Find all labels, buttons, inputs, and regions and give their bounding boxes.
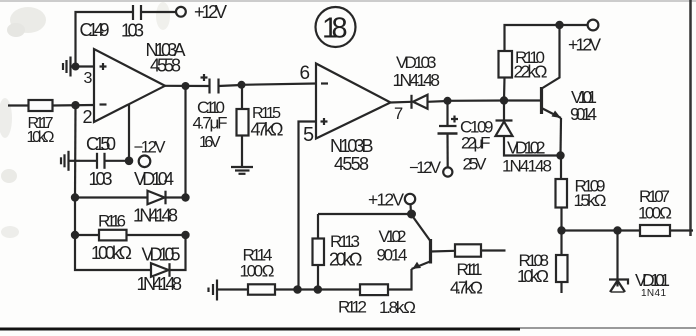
- ground (R115): [231, 167, 253, 174]
- svg-text:20k Ω: 20k Ω: [329, 250, 363, 270]
- transistor V101: [504, 25, 561, 156]
- svg-text:R111: R111: [457, 260, 483, 279]
- resistor R107: [640, 225, 670, 236]
- node -12V pin: [125, 157, 134, 166]
- terminal -12V (C109): [443, 167, 452, 176]
- wire rail1 right: [166, 196, 186, 198]
- wire node to VD101 node: [562, 229, 618, 231]
- wire node C to node D: [448, 99, 505, 102]
- op-amp A negative supply pin wire: [128, 104, 130, 161]
- svg-text:VD105: VD105: [142, 245, 181, 265]
- svg-text:N103B: N103B: [330, 136, 374, 156]
- svg-text:9014: 9014: [570, 104, 597, 124]
- wire opamp B output: [391, 101, 412, 104]
- resistor R110: [499, 51, 513, 78]
- diode VD105: [151, 263, 170, 277]
- wire pin6: [242, 84, 317, 85]
- node G: [407, 210, 416, 219]
- svg-text:1N4148: 1N4148: [502, 157, 552, 176]
- svg-text:9014: 9014: [377, 246, 408, 265]
- svg-text:1N4148: 1N4148: [393, 70, 441, 90]
- wire R113 bottom lead: [317, 265, 319, 290]
- node R109/R108: [557, 226, 565, 234]
- ground (R114): [209, 280, 231, 301]
- node emitter V101: [556, 151, 564, 159]
- svg-text:100k Ω: 100k Ω: [91, 243, 132, 263]
- node C: [444, 97, 452, 105]
- svg-text:4.7μF: 4.7μF: [193, 114, 228, 133]
- wire R110 bottom: [503, 78, 506, 101]
- resistor R112: [360, 284, 388, 295]
- svg-text:10k Ω: 10k Ω: [517, 266, 549, 286]
- wire ground to R114: [230, 288, 248, 290]
- terminal +12V (V102): [405, 194, 415, 204]
- diode VD101: [609, 231, 628, 293]
- wire rail3 right up: [170, 235, 186, 270]
- circled number 18: [316, 7, 356, 47]
- wire rail3 VD105: [75, 235, 151, 270]
- node rail1 left: [71, 193, 79, 201]
- wire R109 top: [560, 156, 562, 180]
- wire R113 top lead: [317, 214, 319, 239]
- ground (C150): [61, 151, 80, 171]
- node pin2: [71, 101, 79, 109]
- wire node E to node F: [298, 288, 318, 290]
- wire C110 to node B: [219, 85, 242, 86]
- svg-text:15k Ω: 15k Ω: [574, 191, 607, 210]
- svg-text:10k Ω: 10k Ω: [27, 129, 55, 146]
- resistor R111: [455, 244, 481, 256]
- wire R113 top rail to +12V node: [318, 213, 412, 215]
- wire opamp A output: [165, 85, 210, 87]
- svg-text:VD102: VD102: [507, 138, 546, 158]
- resistor R116: [99, 230, 127, 241]
- svg-text:22k Ω: 22k Ω: [514, 62, 548, 82]
- capacitor C110: [201, 74, 219, 94]
- wire R110 top rail: [505, 25, 560, 51]
- node D: [500, 96, 508, 104]
- wire R115 bottom: [241, 136, 243, 168]
- wire pin3: [76, 65, 95, 67]
- node rail1 right: [181, 193, 189, 201]
- wire R117 to pin2: [53, 104, 95, 107]
- svg-text:103: 103: [89, 169, 113, 189]
- node pin3: [72, 63, 80, 71]
- svg-text:16V: 16V: [199, 134, 221, 151]
- svg-text:7: 7: [394, 105, 403, 123]
- node F R113 bottom: [314, 285, 323, 294]
- wire to R107: [618, 229, 641, 231]
- resistor R113: [313, 239, 325, 266]
- wire R108 bottom: [560, 282, 562, 293]
- op-amp U1 N103A: [94, 49, 165, 122]
- wire R115 top: [241, 85, 243, 109]
- node rail2 left: [71, 231, 79, 239]
- svg-text:103: 103: [121, 21, 144, 41]
- svg-text:4558: 4558: [334, 154, 369, 174]
- svg-text:22μF: 22μF: [461, 134, 491, 153]
- diode VD102: [496, 101, 561, 156]
- wire rail1 VD104: [75, 196, 148, 198]
- resistor R108: [556, 255, 568, 282]
- resistor R114: [248, 284, 275, 294]
- svg-text:8: 8: [332, 13, 348, 45]
- resistor R109: [556, 179, 568, 208]
- wire R109 bottom: [560, 208, 562, 231]
- right border line: [689, 0, 692, 236]
- node E pin5 bottom: [293, 285, 302, 294]
- wire output vertical feedback: [184, 86, 186, 198]
- svg-text:100 Ω: 100 Ω: [240, 262, 275, 281]
- svg-text:2: 2: [83, 107, 93, 127]
- wire R107 right: [670, 229, 693, 231]
- resistor R117: [29, 100, 53, 111]
- svg-text:1.8k Ω: 1.8k Ω: [379, 298, 416, 317]
- wire rail2 left: [75, 234, 99, 236]
- wire feedback vertical left lower: [74, 198, 76, 236]
- capacitor C109: [438, 101, 459, 168]
- svg-text:R116: R116: [98, 212, 126, 231]
- svg-text:−12V: −12V: [409, 159, 441, 177]
- wire C149 to +12V terminal: [141, 11, 176, 13]
- node B: [238, 81, 246, 89]
- wire R112 right to emitter corner: [388, 269, 412, 290]
- wire VD103 to node C: [428, 100, 448, 103]
- ground (pin 3): [63, 57, 76, 77]
- svg-text:1N4148: 1N4148: [133, 206, 178, 226]
- svg-text:100 Ω: 100 Ω: [638, 204, 672, 223]
- svg-text:−12V: −12V: [134, 139, 166, 157]
- terminal +12V (right): [588, 20, 599, 31]
- svg-text:R112: R112: [338, 298, 367, 317]
- capacitor C149: [133, 5, 141, 20]
- terminal +12V (top-left): [176, 7, 186, 17]
- node collector rail: [555, 21, 563, 29]
- svg-text:+12V: +12V: [368, 190, 404, 210]
- bottom border light segment: [520, 327, 696, 329]
- svg-text:VD104: VD104: [134, 169, 174, 189]
- wire C150 to -12V node: [105, 160, 130, 162]
- node VD101: [613, 226, 621, 234]
- svg-text:3: 3: [84, 70, 93, 87]
- top border line: [0, 0, 696, 2]
- wire terminal to node G: [409, 204, 412, 214]
- capacitor C150: [97, 153, 105, 169]
- wire pin5: [299, 122, 317, 290]
- wire rail to +12V terminal: [560, 24, 588, 26]
- svg-text:VD101: VD101: [635, 270, 670, 290]
- node rail2 right: [181, 231, 189, 239]
- svg-text:5: 5: [303, 124, 314, 146]
- svg-text:1N4148: 1N4148: [137, 274, 183, 294]
- svg-text:R113: R113: [330, 232, 360, 251]
- diode VD103: [412, 95, 428, 109]
- svg-text:+12V: +12V: [194, 2, 227, 22]
- wire feedback vertical left: [74, 105, 77, 197]
- wire node F to R112: [318, 288, 360, 290]
- svg-text:6: 6: [300, 63, 311, 84]
- svg-text:25V: 25V: [463, 155, 488, 174]
- svg-text:C150: C150: [86, 134, 116, 154]
- transistor V102: [412, 216, 456, 270]
- wire R108 top: [560, 231, 562, 256]
- resistor R115: [237, 109, 249, 136]
- svg-text:1N41: 1N41: [641, 288, 666, 299]
- svg-text:V102: V102: [379, 227, 407, 246]
- wire +12V top rail from pin3 node up to C149: [76, 12, 134, 67]
- wire rail2 right: [127, 234, 186, 236]
- smudge artifacts left edge: [0, 2, 170, 238]
- wire R114 to node E: [275, 288, 299, 290]
- node output A: [182, 82, 190, 90]
- wire C150 left: [80, 160, 97, 162]
- svg-text:C149: C149: [80, 20, 110, 40]
- bottom border dark segment: [0, 328, 520, 331]
- svg-text:47k Ω: 47k Ω: [251, 120, 284, 140]
- svg-text:4.7k Ω: 4.7k Ω: [450, 278, 483, 298]
- op-amp U2 N103B: [316, 64, 391, 139]
- diode VD104: [148, 191, 166, 205]
- terminal -12V (N103A): [139, 156, 151, 168]
- svg-text:+12V: +12V: [568, 35, 601, 55]
- wire R111 right: [481, 249, 506, 251]
- svg-text:4558: 4558: [150, 56, 181, 76]
- wire input left: [8, 104, 29, 106]
